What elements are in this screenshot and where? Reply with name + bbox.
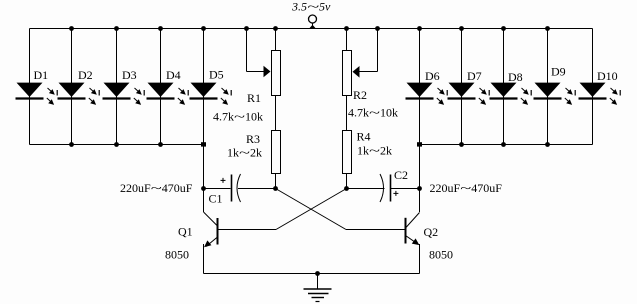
junction right cathode rail x=461.5 xyxy=(459,142,464,147)
label C2 value 220uF~470uF xyxy=(430,181,503,195)
wire R4 to C2 node xyxy=(346,174,348,189)
svg-text:Q2: Q2 xyxy=(424,225,439,239)
LED D5 xyxy=(190,83,232,105)
junction top rail x=547.5 xyxy=(545,26,550,31)
R2 wiper arrow xyxy=(353,66,360,78)
LED D9 xyxy=(534,83,576,105)
svg-text:220uF~470uF: 220uF~470uF xyxy=(430,181,503,195)
junction C1/R3 node xyxy=(273,186,278,191)
wire C1 right lead xyxy=(238,188,276,190)
resistor R1 body xyxy=(272,51,281,96)
junction top rail x=203.5 xyxy=(201,26,206,31)
wire Q2 base lead xyxy=(346,229,406,231)
junction power terminal (triangle) xyxy=(309,25,317,29)
LED D4 xyxy=(147,83,189,105)
svg-text:D9: D9 xyxy=(551,65,566,79)
svg-text:D8: D8 xyxy=(508,70,523,84)
svg-text:D2: D2 xyxy=(78,68,93,82)
junction top rail x=461.5 xyxy=(459,26,464,31)
junction top rail x=275.5 xyxy=(273,26,278,31)
junction left cathode rail x=71.5 xyxy=(69,142,74,147)
svg-text:C2: C2 xyxy=(394,168,408,182)
wire Q1 collector riser xyxy=(203,145,205,213)
wire D8 column xyxy=(503,29,505,145)
capacitor C2 negative plate (curved) xyxy=(380,174,384,202)
transistor Q1 xyxy=(204,212,218,247)
label D9 xyxy=(551,65,566,79)
transistor Q2 xyxy=(406,213,420,246)
svg-text:D3: D3 xyxy=(122,68,137,82)
label C1 xyxy=(209,192,223,206)
junction left cathode rail x=116.5 xyxy=(114,142,119,147)
svg-text:1k~2k: 1k~2k xyxy=(357,144,392,158)
wire R3 to C1 node xyxy=(275,174,277,189)
label R1 xyxy=(247,91,261,105)
label D5 xyxy=(209,68,224,82)
svg-text:1k~2k: 1k~2k xyxy=(227,146,262,160)
wire R1 to R3 xyxy=(275,96,277,131)
svg-text:220uF~470uF: 220uF~470uF xyxy=(120,181,193,195)
capacitor C1 positive plate xyxy=(231,175,233,202)
wire top power rail xyxy=(30,28,593,30)
wire cross C2 node to Q1 base xyxy=(276,189,347,230)
label R3 xyxy=(246,132,260,146)
LED D7 xyxy=(448,83,490,105)
wire D10 column xyxy=(592,29,594,145)
label C1 plus xyxy=(221,178,226,183)
svg-text:D1: D1 xyxy=(34,68,49,82)
label Q1 xyxy=(178,225,193,239)
svg-text:D6: D6 xyxy=(425,69,440,83)
svg-text:8050: 8050 xyxy=(165,248,189,262)
junction top rail x=71.5 xyxy=(69,26,74,31)
svg-text:Q1: Q1 xyxy=(178,225,193,239)
svg-text:4.7k~10k: 4.7k~10k xyxy=(348,106,398,120)
wire D3 column xyxy=(116,29,118,145)
wire Q1 base lead xyxy=(218,229,277,231)
svg-text:R2: R2 xyxy=(353,88,367,102)
wire top rail to R1 xyxy=(275,29,277,51)
label D2 xyxy=(78,68,93,82)
svg-text:D5: D5 xyxy=(209,68,224,82)
junction top rail x=116.5 xyxy=(114,26,119,31)
label R4 xyxy=(357,130,371,144)
svg-text:R1: R1 xyxy=(247,91,261,105)
junction top rail x=503.5 xyxy=(501,26,506,31)
junction top rail x=246.5 xyxy=(244,26,249,31)
label R4 value 1k~2k xyxy=(357,144,392,158)
wire D1 column xyxy=(29,29,31,145)
wire R2 to R4 xyxy=(346,96,348,131)
wire D2 column xyxy=(71,29,73,145)
label Q2 xyxy=(424,225,439,239)
wire R2 wiper from top rail xyxy=(359,29,378,72)
LED D6 xyxy=(406,83,448,105)
junction C2 left node xyxy=(344,186,349,191)
wire D4 column xyxy=(160,29,162,145)
wire D7 column xyxy=(461,29,463,145)
wire bottom emitter rail xyxy=(204,273,420,275)
LED D8 xyxy=(490,83,532,105)
junction top rail x=419.5 xyxy=(417,26,422,31)
junction right cathode rail x=503.5 xyxy=(501,142,506,147)
label D10 xyxy=(597,69,618,83)
wire top rail to R2 xyxy=(346,29,348,51)
svg-text:C1: C1 xyxy=(209,192,223,206)
wire left LED cathode rail xyxy=(30,144,204,146)
LED D1 xyxy=(16,83,58,105)
wire C1 left lead xyxy=(204,188,231,190)
label D8 xyxy=(508,70,523,84)
svg-text:4.7k~10k: 4.7k~10k xyxy=(213,110,263,124)
label C2 plus xyxy=(393,191,398,196)
svg-text:R3: R3 xyxy=(246,132,260,146)
svg-text:3.5~5v: 3.5~5v xyxy=(291,0,331,14)
wire Q2 collector riser xyxy=(419,145,421,213)
label D1 xyxy=(34,68,49,82)
junction right cathode rail x=547.5 xyxy=(545,142,550,147)
label R2 xyxy=(353,88,367,102)
R1 wiper arrow xyxy=(264,66,271,78)
LED D2 xyxy=(58,83,100,105)
junction top rail x=160.5 xyxy=(158,26,163,31)
svg-text:D7: D7 xyxy=(467,69,482,83)
junction C2/Q2 collector node xyxy=(417,186,422,191)
label D6 xyxy=(425,69,440,83)
capacitor C2 positive plate xyxy=(390,175,392,202)
wire D9 column xyxy=(547,29,549,145)
junction top rail x=377.5 xyxy=(375,26,380,31)
wire C2 right lead xyxy=(391,188,420,190)
junction left cathode rail x=160.5 xyxy=(158,142,163,147)
resistor R4 body xyxy=(343,131,352,174)
label D7 xyxy=(467,69,482,83)
wire cross C1 node to Q2 base xyxy=(276,189,347,230)
label D3 xyxy=(122,68,137,82)
junction square right (Q2 collector node) xyxy=(417,142,422,146)
junction C1 left node xyxy=(201,186,206,191)
wire right LED cathode rail xyxy=(420,144,593,146)
label C1 value 220uF~470uF xyxy=(120,181,193,195)
wire C2 left lead xyxy=(347,188,385,190)
label R2 value 4.7k~10k xyxy=(348,106,398,120)
wire D6 column xyxy=(419,29,421,145)
label C2 xyxy=(394,168,408,182)
wire Q1 emitter to ground rail xyxy=(203,244,205,274)
label Q1 type 8050 xyxy=(165,248,189,262)
label Q2 type 8050 xyxy=(429,248,453,262)
capacitor C1 negative plate (curved) xyxy=(237,174,241,202)
svg-text:D10: D10 xyxy=(597,69,618,83)
LED D3 xyxy=(103,83,145,105)
wire D5 column xyxy=(203,29,205,145)
svg-text:D4: D4 xyxy=(166,68,181,82)
label R1 value 4.7k~10k xyxy=(213,110,263,124)
svg-text:R4: R4 xyxy=(357,130,371,144)
resistor R2 body xyxy=(343,51,352,96)
LED D10 xyxy=(579,83,621,105)
label D4 xyxy=(166,68,181,82)
label R3 value 1k~2k xyxy=(227,146,262,160)
label 3.5~5v supply xyxy=(291,0,331,14)
ground xyxy=(304,274,332,302)
svg-text:8050: 8050 xyxy=(429,248,453,262)
junction ground node xyxy=(315,271,320,276)
wire Q2 emitter to ground rail xyxy=(419,244,421,274)
wire R1 wiper from top rail xyxy=(247,29,266,72)
junction top rail x=346.5 xyxy=(344,26,349,31)
junction square left (Q1 collector node) xyxy=(201,142,206,146)
power terminal circle xyxy=(309,15,317,29)
resistor R3 body xyxy=(272,131,281,174)
